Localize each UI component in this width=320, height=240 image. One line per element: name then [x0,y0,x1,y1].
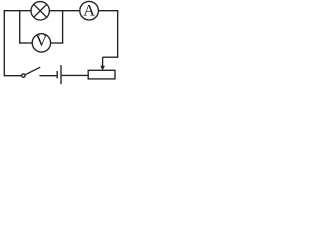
wire battery to rheostat [62,74,89,76]
svg-text:A: A [83,0,95,19]
wire voltmeter right horizontal [51,42,64,44]
wire bottom-left horizontal [4,75,22,77]
switch blade [25,67,40,75]
wire left vertical [3,10,5,76]
battery long plate [60,65,62,84]
wire voltmeter left horizontal [19,42,32,44]
rheostat body [88,70,115,79]
wire right vertical [117,10,119,57]
voltmeter branch right vertical [62,11,64,44]
voltmeter V [32,33,50,52]
wire switch to battery [39,75,57,77]
battery short plate [56,71,58,78]
wire step to wiper [103,56,119,58]
wire top-right horizontal [98,10,118,12]
voltmeter branch left vertical [19,11,21,44]
wire top-middle horizontal [49,10,79,12]
rheostat wiper arrow [100,57,105,70]
lamp [31,2,49,20]
svg-text:V: V [36,33,48,50]
wire top-left horizontal [4,10,32,12]
ammeter A [80,0,99,20]
switch pivot [22,74,25,77]
